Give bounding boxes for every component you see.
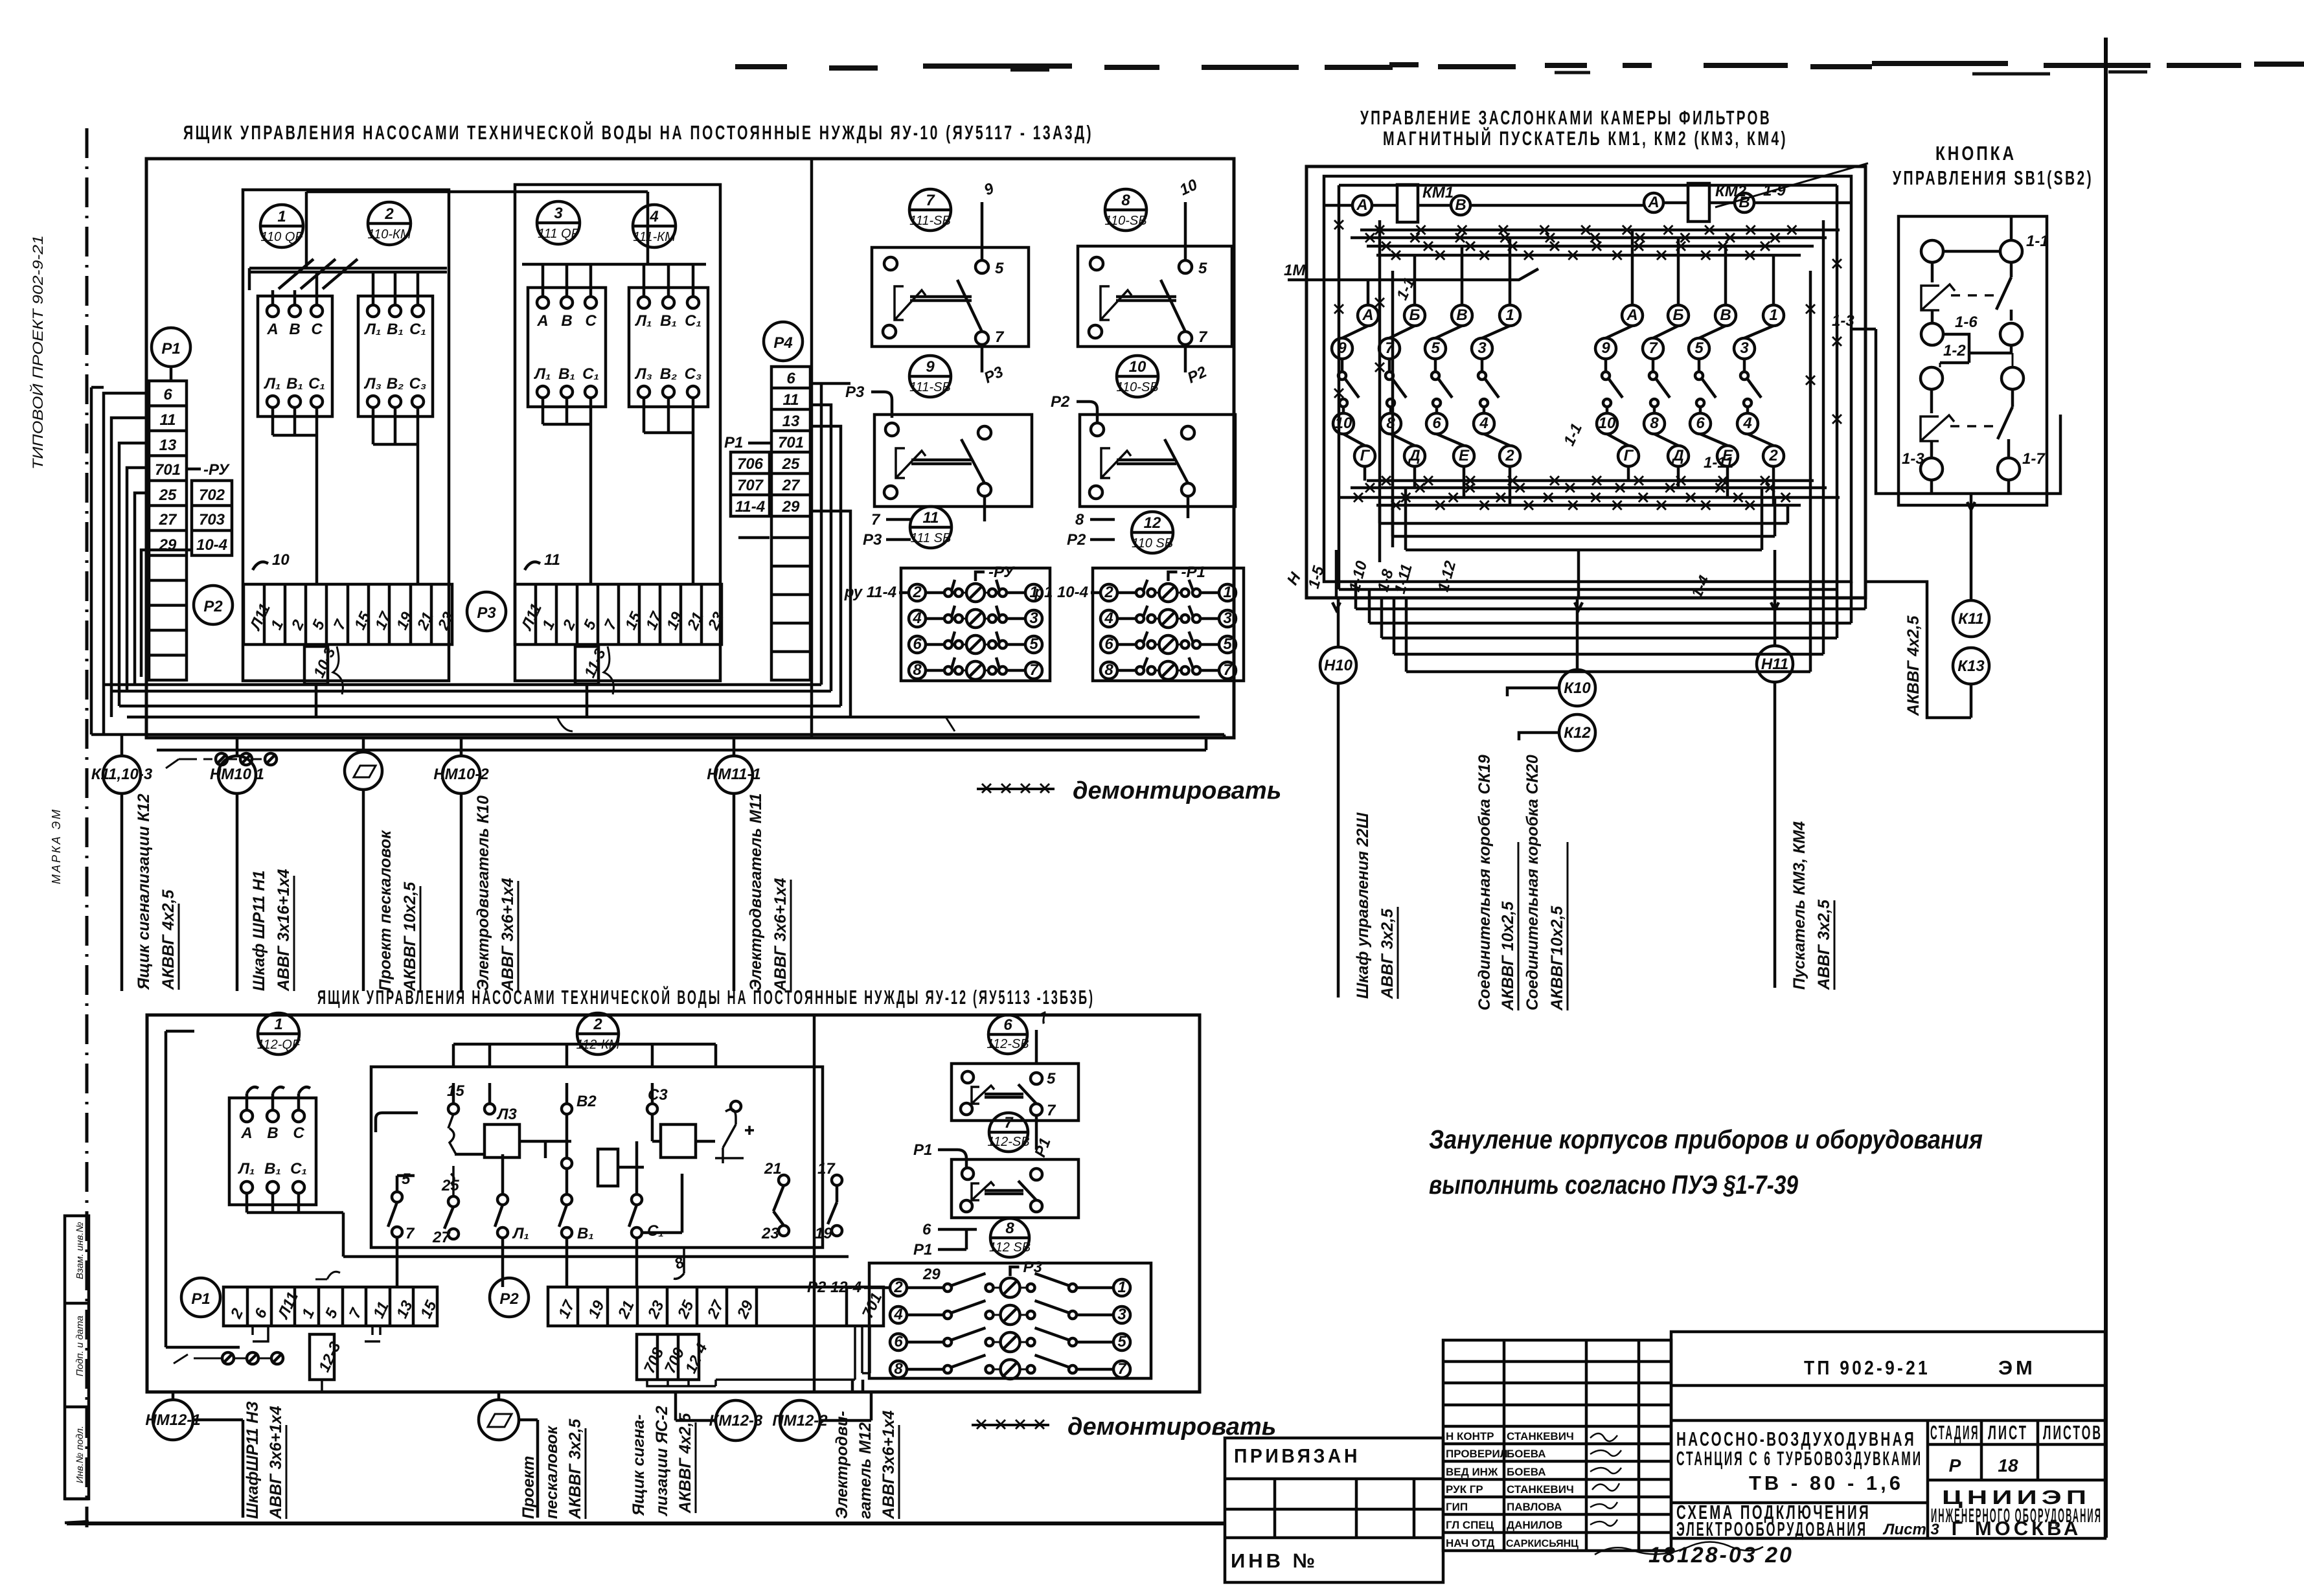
- svg-text:8: 8: [1650, 415, 1659, 432]
- svg-text:2: 2: [1505, 447, 1514, 464]
- P1 terminal strip: [149, 381, 187, 680]
- svg-text:Л₃: Л₃: [634, 365, 652, 383]
- legend demontage upper: [977, 777, 1281, 804]
- P3 hanging cell 11-3: [575, 646, 610, 717]
- 1M feeder: [1284, 262, 1538, 280]
- svg-text:С₁: С₁: [308, 375, 325, 393]
- svg-text:8: 8: [894, 1360, 903, 1378]
- P1L hanging cell 12-3: [253, 1326, 380, 1392]
- svg-text:112 SB: 112 SB: [989, 1240, 1031, 1255]
- junction PM12-2: [772, 1380, 871, 1441]
- svg-text:2: 2: [1104, 584, 1113, 601]
- svg-text:Д: Д: [1408, 447, 1420, 464]
- svg-text:С₁: С₁: [409, 321, 426, 338]
- svg-text:Г МОСКВА: Г МОСКВА: [1952, 1517, 2082, 1540]
- svg-text:К13: К13: [1957, 657, 1985, 675]
- svg-text:2: 2: [912, 584, 922, 601]
- svg-text:В: В: [1455, 196, 1466, 214]
- svg-text:1: 1: [1769, 306, 1777, 324]
- svg-text:1-11: 1-11: [1704, 454, 1733, 472]
- svg-text:3: 3: [1117, 1306, 1126, 1323]
- breaker block A1: [258, 296, 332, 416]
- P4 side column: [724, 434, 771, 516]
- svg-text:19: 19: [815, 1225, 832, 1242]
- P3 fuse hook: [604, 646, 613, 694]
- drop K10 K12: [1507, 598, 1595, 751]
- svg-text:Г: Г: [1360, 447, 1371, 464]
- wire double bus boxA: [249, 268, 447, 290]
- wires into circle 8L: [913, 1221, 977, 1259]
- bus junction arcs: [557, 717, 955, 731]
- svg-text:ТВ - 80 - 1,6: ТВ - 80 - 1,6: [1749, 1472, 1904, 1494]
- button contacts bottom pair: [1902, 439, 2046, 510]
- svg-text:В: В: [1739, 194, 1750, 211]
- contact grid -РУ: [901, 564, 1050, 681]
- svg-text:АВВГ 3х16+1х4: АВВГ 3х16+1х4: [275, 869, 293, 992]
- svg-text:7: 7: [1385, 339, 1395, 357]
- svg-text:3: 3: [1029, 610, 1038, 627]
- svg-text:11: 11: [923, 509, 939, 527]
- svg-text:УПРАВЛЕНИЕ ЗАСЛОНКАМИ КАМЕРЫ: УПРАВЛЕНИЕ ЗАСЛОНКАМИ КАМЕРЫ ФИЛЬТРОВ: [1360, 106, 1772, 129]
- svg-text:5: 5: [1117, 1333, 1126, 1351]
- svg-text:ПРОВЕРИЛ: ПРОВЕРИЛ: [1446, 1448, 1508, 1460]
- page frame: left dash-dot border: [86, 128, 89, 1527]
- svg-text:ПРИВЯЗАН: ПРИВЯЗАН: [1234, 1444, 1360, 1467]
- svg-text:11: 11: [544, 551, 560, 569]
- svg-text:6: 6: [913, 635, 922, 653]
- svg-text:11: 11: [160, 411, 176, 429]
- P3 balloon: [467, 592, 506, 631]
- svg-text:В₁: В₁: [577, 1225, 594, 1242]
- junction rhomb lower: [479, 1392, 538, 1518]
- designator circle 10: [1116, 356, 1158, 397]
- svg-text:АКВВГ 4х2,5: АКВВГ 4х2,5: [159, 889, 177, 990]
- wire drops into A2: [373, 272, 418, 305]
- svg-text:10: 10: [272, 551, 290, 569]
- svg-text:С: С: [585, 312, 597, 330]
- svg-text:Р3: Р3: [1023, 1259, 1043, 1276]
- svg-text:3: 3: [1477, 339, 1487, 357]
- svg-text:7: 7: [926, 192, 935, 209]
- svg-text:АВВГ3х6+1х4: АВВГ3х6+1х4: [880, 1410, 898, 1520]
- svg-text:6: 6: [786, 370, 795, 387]
- stamp small table: [1443, 1340, 1671, 1551]
- svg-text:1: 1: [277, 208, 286, 225]
- svg-text:5: 5: [1198, 260, 1207, 277]
- cable label 2: [250, 869, 294, 992]
- svg-text:111-КМ: 111-КМ: [633, 230, 676, 244]
- svg-text:6: 6: [1003, 1016, 1012, 1034]
- svg-text:Д: Д: [1671, 447, 1683, 464]
- button link 1-2: [1940, 334, 2011, 363]
- svg-text:СТАНКЕВИЧ: СТАНКЕВИЧ: [1507, 1483, 1574, 1496]
- svg-text:Р1: Р1: [913, 1241, 932, 1259]
- button contacts row3 pair: [1921, 353, 2024, 389]
- panel frame outer: [1306, 166, 1865, 598]
- contact grid -Р1: [1093, 564, 1244, 681]
- svg-text:5: 5: [1694, 339, 1704, 357]
- junction NM10-2: [433, 738, 489, 991]
- designator circle 1L 112-QF: [257, 1013, 301, 1054]
- switch box SL2: [952, 1159, 1078, 1218]
- svg-text:гатель М12: гатель М12: [856, 1422, 874, 1519]
- P1 balloon: [152, 328, 190, 367]
- contact grid lower: [869, 1259, 1151, 1379]
- svg-text:9: 9: [1601, 339, 1610, 357]
- svg-text:В₁: В₁: [264, 1160, 281, 1178]
- P3 terminal strip: [515, 584, 728, 644]
- svg-text:Р3: Р3: [477, 604, 496, 622]
- designator circle 1 110QF: [260, 205, 304, 247]
- svg-text:3: 3: [1223, 610, 1232, 627]
- svg-text:В₁: В₁: [387, 321, 404, 338]
- circle group right KM2: [1595, 230, 1784, 505]
- svg-text:4: 4: [893, 1306, 902, 1323]
- svg-text:Н11: Н11: [1761, 655, 1788, 673]
- wire tag 10: [1177, 176, 1200, 259]
- svg-text:2: 2: [384, 205, 394, 223]
- stamp right part: [1671, 1332, 2105, 1540]
- switch box S3: [874, 415, 1032, 521]
- svg-text:5: 5: [995, 260, 1004, 277]
- svg-text:Р4: Р4: [773, 334, 792, 352]
- svg-text:703: 703: [199, 511, 225, 529]
- AKVVG 4x2.5 riser: [1865, 582, 1952, 718]
- svg-text:ЭМ: ЭМ: [1998, 1356, 2036, 1379]
- svg-text:НАЧ ОТД: НАЧ ОТД: [1446, 1537, 1494, 1549]
- svg-text:25: 25: [159, 486, 177, 504]
- designator circle 12: [1132, 512, 1173, 553]
- svg-text:1-6: 1-6: [1955, 313, 1978, 331]
- title leader diagonal: [1715, 163, 1868, 207]
- svg-text:1-2: 1-2: [1943, 342, 1966, 359]
- svg-text:Р2: Р2: [203, 598, 223, 615]
- svg-text:С₁: С₁: [290, 1160, 307, 1178]
- svg-text:демонтировать: демонтировать: [1073, 777, 1281, 804]
- left margin stamp column: [65, 1216, 89, 1523]
- relay top bus and stubs: [453, 1044, 716, 1067]
- svg-text:А: А: [1356, 196, 1367, 214]
- svg-text:7: 7: [995, 328, 1005, 346]
- svg-text:САРКИСЬЯНЦ: САРКИСЬЯНЦ: [1506, 1538, 1579, 1549]
- relay bottom contacts 5-7: [388, 1170, 415, 1242]
- svg-text:ШкафШР11 НЗ: ШкафШР11 НЗ: [244, 1401, 262, 1519]
- svg-text:1: 1: [274, 1016, 282, 1033]
- svg-text:8: 8: [1075, 511, 1084, 529]
- svg-text:3: 3: [1740, 339, 1749, 357]
- svg-text:4: 4: [649, 208, 658, 225]
- stamp stage columns: [1928, 1420, 2105, 1480]
- svg-text:АВВГ 3х6+1х4: АВВГ 3х6+1х4: [267, 1406, 285, 1520]
- junction NM10-1: [210, 738, 264, 991]
- cable label NM12-1: [244, 1401, 286, 1520]
- drop N11: [1757, 598, 1793, 988]
- wires into circle 11: [863, 511, 911, 549]
- svg-text:С: С: [311, 321, 323, 338]
- svg-text:10: 10: [1599, 415, 1616, 432]
- bottom bus lines: [91, 685, 1224, 750]
- svg-text:21: 21: [764, 1160, 782, 1178]
- P1L terminal strip: [223, 1287, 440, 1326]
- svg-text:Б: Б: [1673, 306, 1684, 324]
- svg-text:К11,10-3: К11,10-3: [91, 766, 153, 783]
- wire collectors under B1: [543, 398, 591, 584]
- svg-text:4: 4: [912, 610, 921, 627]
- svg-text:А: А: [1647, 194, 1659, 211]
- grid label lower: [807, 1266, 941, 1296]
- svg-text:8: 8: [1386, 415, 1395, 432]
- svg-text:-РУ: -РУ: [203, 461, 230, 479]
- svg-text:АКВВГ10х2,5: АКВВГ10х2,5: [1548, 906, 1566, 1011]
- grid label р1 10-4: [1034, 584, 1101, 601]
- svg-text:А: А: [240, 1124, 252, 1142]
- svg-text:1: 1: [1505, 306, 1514, 324]
- panel lower returns staircase: [1356, 547, 1865, 672]
- svg-text:С: С: [293, 1124, 304, 1142]
- svg-text:9: 9: [926, 358, 935, 376]
- svg-text:110-SB: 110-SB: [1104, 214, 1146, 228]
- designator circle 4 111-KM: [633, 205, 676, 247]
- svg-text:АВВГ 3х6+1х4: АВВГ 3х6+1х4: [771, 878, 790, 992]
- wire SL1 out: [1031, 1115, 1054, 1159]
- svg-text:К12: К12: [1564, 724, 1591, 742]
- earth symbols: [166, 753, 277, 768]
- svg-text:Р2: Р2: [1067, 531, 1086, 549]
- svg-text:9: 9: [1338, 339, 1347, 357]
- wire S1 out: [981, 345, 1007, 387]
- cable label N11: [1790, 821, 1834, 990]
- svg-text:С₁: С₁: [685, 312, 701, 330]
- svg-text:ДАНИЛОВ: ДАНИЛОВ: [1507, 1519, 1562, 1531]
- svg-text:Г: Г: [1624, 447, 1634, 464]
- demounted wire bus bottom group: [1339, 476, 1840, 510]
- P2L balloon: [490, 1278, 529, 1317]
- svg-text:Р1: Р1: [161, 340, 180, 358]
- svg-text:АВВГ 3х2,5: АВВГ 3х2,5: [1378, 908, 1397, 999]
- svg-text:12: 12: [1144, 514, 1161, 532]
- svg-text:Подп. и дата: Подп. и дата: [74, 1316, 86, 1376]
- svg-text:1: 1: [1223, 584, 1231, 601]
- svg-text:Р2: Р2: [499, 1290, 519, 1308]
- svg-text:Б: Б: [1409, 306, 1420, 324]
- svg-text:НМ11-1: НМ11-1: [707, 766, 761, 783]
- contactor block B2: [629, 288, 708, 407]
- relay to strip verticals: [397, 1237, 637, 1287]
- svg-text:8: 8: [913, 661, 922, 679]
- svg-text:7: 7: [1198, 328, 1208, 346]
- svg-text:Взам. инв.№: Взам. инв.№: [74, 1222, 86, 1279]
- button mushroom upper: [1921, 262, 2011, 323]
- wire drops into B2: [644, 264, 693, 297]
- svg-text:НМ10 1: НМ10 1: [210, 766, 264, 783]
- svg-text:Проект: Проект: [519, 1456, 538, 1519]
- contactor coil KM1: [1324, 184, 1644, 222]
- svg-text:ГИП: ГИП: [1446, 1501, 1468, 1513]
- switch box SL1: [952, 1064, 1078, 1121]
- svg-text:В: В: [1720, 306, 1731, 324]
- P2 terminal strip: [244, 584, 458, 644]
- svg-text:В: В: [289, 321, 300, 338]
- svg-text:112-SB: 112-SB: [987, 1037, 1029, 1051]
- breaker block L1: [229, 1098, 316, 1205]
- svg-text:-РУ: -РУ: [988, 564, 1015, 581]
- cable label project lower: [519, 1419, 586, 1520]
- svg-text:7: 7: [1648, 339, 1658, 357]
- tag 8 above P2L: [672, 1248, 687, 1279]
- svg-text:ЭЛЕКТРООБОРУДОВАНИЯ: ЭЛЕКТРООБОРУДОВАНИЯ: [1676, 1518, 1867, 1540]
- svg-text:Р3: Р3: [863, 531, 882, 549]
- svg-text:АКВВГ 3х2,5: АКВВГ 3х2,5: [566, 1419, 584, 1520]
- junction NM11-1: [707, 738, 761, 991]
- svg-text:Р1: Р1: [724, 434, 743, 451]
- relay bottom contact B1: [559, 1168, 594, 1242]
- svg-text:ВЕД ИНЖ: ВЕД ИНЖ: [1446, 1466, 1498, 1478]
- relay bottom contacts 25-27: [432, 1166, 459, 1246]
- wires into circle 12: [1067, 511, 1115, 549]
- svg-text:110 SB: 110 SB: [1132, 536, 1173, 551]
- svg-text:-Р1: -Р1: [1181, 564, 1205, 581]
- designator circle 3 111QF: [537, 201, 580, 244]
- svg-text:Электродвигатель К10: Электродвигатель К10: [474, 795, 492, 991]
- svg-text:В₁: В₁: [558, 365, 575, 383]
- svg-text:Р2 12-4: Р2 12-4: [807, 1279, 861, 1296]
- wire P1 top loop: [91, 367, 171, 735]
- svg-text:1: 1: [1117, 1279, 1126, 1296]
- panel frame third: [1339, 185, 1837, 589]
- svg-text:27: 27: [159, 511, 177, 529]
- svg-text:8: 8: [1121, 192, 1130, 209]
- svg-text:4: 4: [1742, 415, 1751, 432]
- svg-text:СТАДИЯ: СТАДИЯ: [1930, 1421, 1979, 1444]
- svg-text:Е: Е: [1459, 447, 1470, 464]
- svg-text:АКВВГ 4х2,5: АКВВГ 4х2,5: [676, 1413, 694, 1514]
- svg-text:УПРАВЛЕНИЯ SB1(SB2): УПРАВЛЕНИЯ SB1(SB2): [1893, 166, 2093, 189]
- button contacts mid pair: [1921, 310, 2022, 345]
- svg-text:29: 29: [922, 1266, 941, 1283]
- svg-text:НМ12-1: НМ12-1: [145, 1411, 200, 1429]
- cable label 4: [474, 795, 518, 992]
- wires into breaker L1: [247, 1087, 310, 1110]
- P2 balloon: [194, 586, 233, 624]
- svg-text:В₁: В₁: [660, 312, 677, 330]
- wire drops into A1: [273, 272, 317, 305]
- svg-text:Соединительная коробка СК19: Соединительная коробка СК19: [1476, 755, 1494, 1010]
- svg-text:7: 7: [405, 1225, 415, 1242]
- svg-text:С₁: С₁: [647, 1222, 664, 1240]
- wire from L1 to relay box: [166, 1031, 849, 1347]
- svg-text:Л3: Л3: [496, 1106, 517, 1123]
- svg-text:БОЕВА: БОЕВА: [1507, 1466, 1546, 1478]
- relay terminal 15: [376, 1082, 464, 1132]
- switch box S2: [1078, 246, 1232, 347]
- wire collectors under A1: [273, 407, 317, 584]
- cable label 5: [747, 793, 791, 992]
- svg-text:ЛИСТОВ: ЛИСТОВ: [2043, 1421, 2103, 1444]
- panel frame fifth: [1393, 271, 1810, 547]
- svg-text:7: 7: [1117, 1360, 1127, 1378]
- svg-text:18128-03 20: 18128-03 20: [1648, 1543, 1794, 1567]
- svg-text:Электродви-: Электродви-: [833, 1411, 851, 1519]
- svg-text:25: 25: [782, 455, 800, 473]
- relay coil L3: [448, 1083, 545, 1157]
- P2L terminal strip: [548, 1287, 885, 1326]
- svg-text:ЯЩИК УПРАВЛЕНИЯ НАСОСАМИ ТЕ: ЯЩИК УПРАВЛЕНИЯ НАСОСАМИ ТЕХНИЧЕСКОЙ ВОД…: [183, 120, 1093, 144]
- svg-text:5: 5: [1029, 635, 1038, 653]
- wire collectors under B2: [644, 398, 693, 584]
- svg-text:1-3: 1-3: [1832, 312, 1854, 330]
- svg-text:В: В: [1456, 306, 1467, 324]
- drop K11 K13: [1952, 510, 1989, 718]
- relay right contact: [715, 1101, 754, 1163]
- P2 fuse hook: [333, 646, 343, 694]
- svg-text:А: А: [1626, 306, 1637, 324]
- svg-text:В₂: В₂: [660, 365, 677, 383]
- svg-text:Н10: Н10: [1324, 657, 1353, 674]
- panel frame fourth: [1380, 220, 1823, 562]
- svg-text:Р2: Р2: [1051, 393, 1070, 411]
- svg-text:110-SB: 110-SB: [1116, 380, 1158, 394]
- svg-text:Л₁: Л₁: [264, 375, 281, 393]
- panel frame second: [1324, 176, 1851, 582]
- cable label KM12-3: [630, 1406, 696, 1516]
- circle group left KM1: [1332, 238, 1520, 505]
- cable label N10: [1354, 812, 1398, 999]
- svg-text:ПМ12-2: ПМ12-2: [772, 1412, 828, 1430]
- svg-text:11: 11: [783, 391, 799, 409]
- svg-text:р1 10-4: р1 10-4: [1034, 584, 1088, 601]
- junction project rhomb: [345, 738, 382, 991]
- svg-text:13: 13: [782, 413, 800, 430]
- svg-text:7: 7: [1223, 661, 1233, 679]
- outer cabinet box YaU-10: [146, 159, 1234, 738]
- grid label ру 11-4: [844, 584, 909, 601]
- svg-text:КМ1: КМ1: [1422, 184, 1454, 201]
- junction KM12-3: [676, 1392, 763, 1441]
- contactor block A2: [358, 296, 433, 416]
- svg-text:В: В: [267, 1124, 278, 1142]
- svg-text:ру 11-4: ру 11-4: [844, 584, 896, 601]
- svg-text:Шкаф ШР11 Н1: Шкаф ШР11 Н1: [250, 871, 268, 991]
- P2L hanging cells 708 709 12-4: [637, 1326, 870, 1386]
- drop N10: [1320, 598, 1356, 997]
- svg-text:Пускатель КМ3, КМ4: Пускатель КМ3, КМ4: [1790, 821, 1808, 990]
- panel inner frame bottoms: [1380, 488, 1788, 550]
- svg-text:6: 6: [922, 1221, 931, 1238]
- svg-text:В2: В2: [576, 1093, 597, 1110]
- svg-text:2: 2: [893, 1279, 903, 1296]
- svg-text:Л₁: Л₁: [534, 365, 551, 383]
- wire P3 into S3: [845, 383, 892, 418]
- junction NM12-1: [145, 1392, 243, 1518]
- svg-text:Проект пескаловок: Проект пескаловок: [376, 830, 394, 991]
- P4 terminal strip: [771, 367, 810, 680]
- svg-text:Зануление корпусов приборов: Зануление корпусов приборов и оборудован…: [1429, 1124, 1983, 1154]
- svg-text:выполнить согласно ПУЭ §1-7-: выполнить согласно ПУЭ §1-7-39: [1429, 1170, 1798, 1200]
- svg-text:А: А: [1362, 306, 1373, 324]
- wire collectors under A2: [373, 407, 418, 584]
- svg-text:пескаловок: пескаловок: [543, 1425, 561, 1519]
- button outer loop: [1876, 329, 2060, 494]
- svg-text:Л₁: Л₁: [238, 1160, 255, 1178]
- page frame: right border: [2104, 38, 2108, 1538]
- switch box S4: [1080, 415, 1235, 518]
- panel crossing marks left: [1334, 220, 1842, 424]
- svg-text:10: 10: [1129, 358, 1146, 376]
- svg-text:111-SB: 111-SB: [909, 214, 951, 228]
- right nested wires from P4 strip: [738, 383, 850, 717]
- svg-text:6: 6: [1696, 415, 1705, 432]
- wire top bus y296: [306, 192, 648, 268]
